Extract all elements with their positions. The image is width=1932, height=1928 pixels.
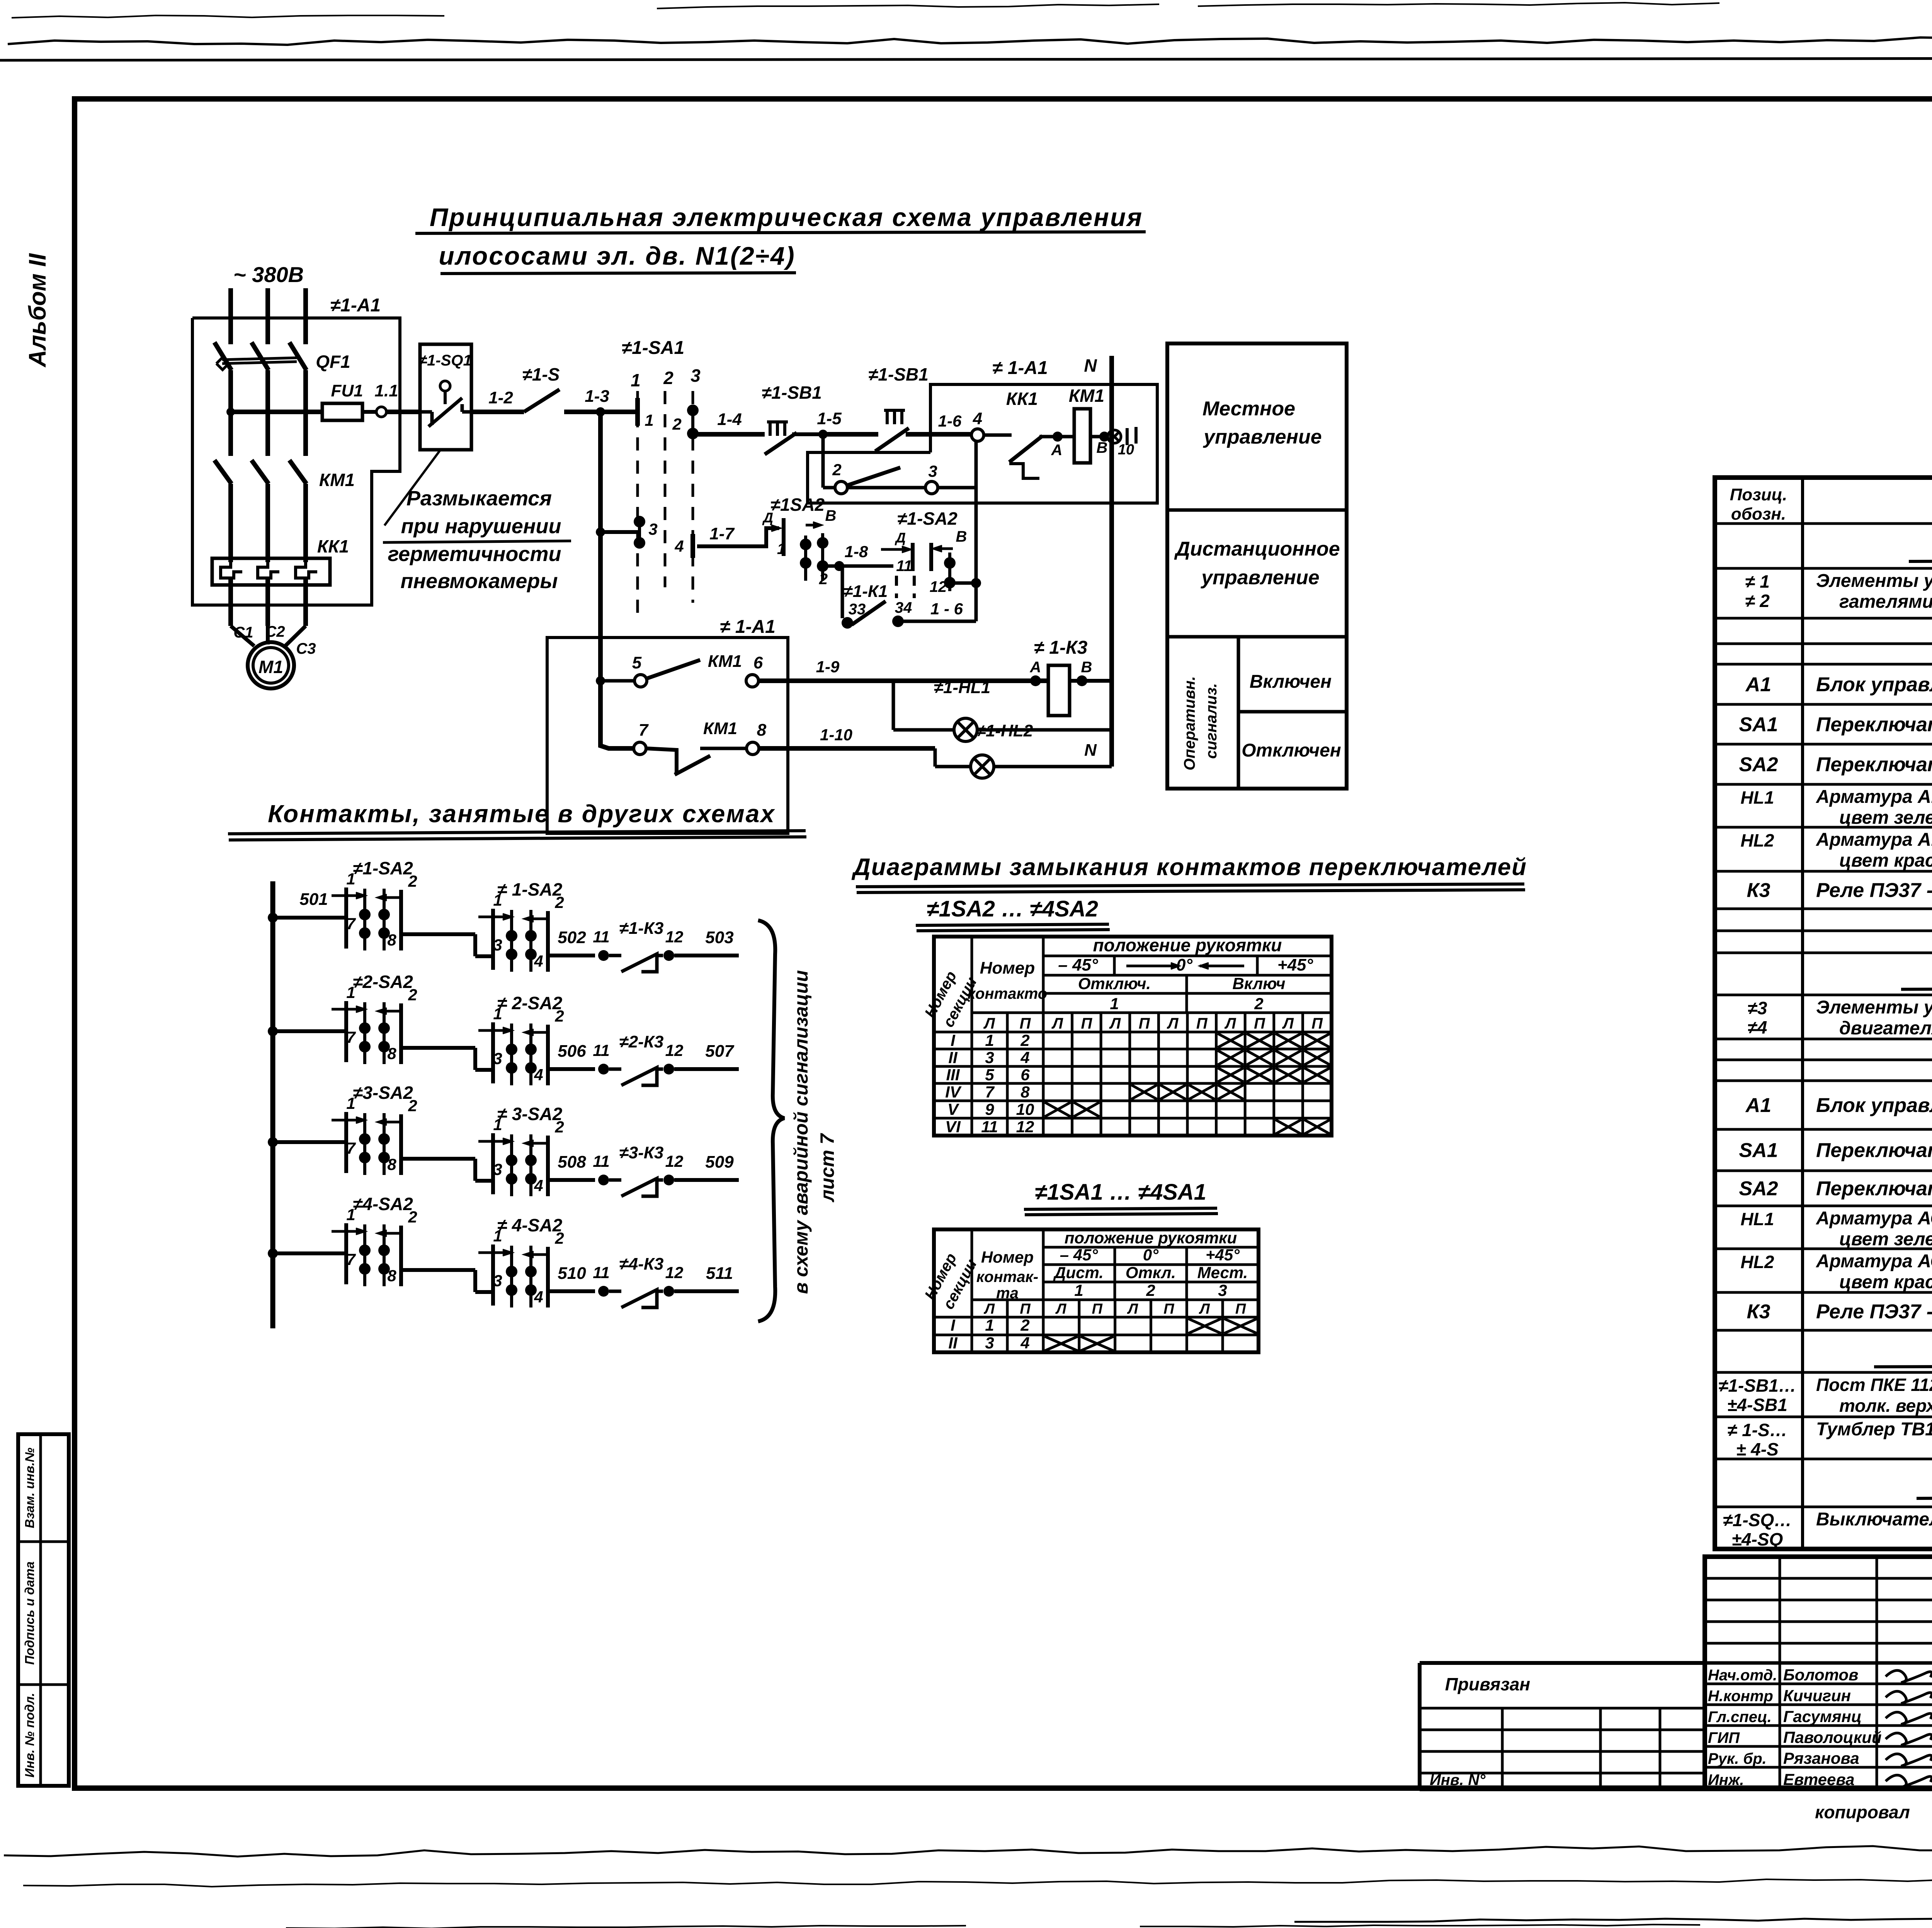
svg-text:HL2: HL2	[1741, 1252, 1774, 1272]
node 1-3	[596, 407, 605, 417]
torn paper edge bottom	[4, 1845, 1932, 1857]
svg-text:8: 8	[387, 931, 396, 949]
svg-text:1: 1	[985, 1316, 994, 1334]
svg-text:1: 1	[346, 983, 355, 1001]
NC blade 7-8	[675, 756, 710, 775]
bracket R2	[929, 543, 933, 571]
svg-text:2: 2	[554, 893, 564, 911]
svg-text:пневмокамеры: пневмокамеры	[401, 570, 558, 593]
svg-text:Отключен: Отключен	[1242, 740, 1341, 761]
node B	[1099, 432, 1109, 442]
svg-text:1: 1	[985, 1031, 994, 1049]
svg-text:Переключатель УП5313 - А19У3: Переключатель УП5313 - А19У3	[1816, 753, 1932, 776]
svg-text:Дистанционное: Дистанционное	[1174, 538, 1340, 560]
svg-text:HL1: HL1	[1741, 1209, 1774, 1229]
svg-text:11: 11	[593, 1263, 610, 1282]
node on bus	[596, 527, 605, 537]
svg-text:управление: управление	[1200, 566, 1319, 589]
svg-text:М1: М1	[259, 657, 283, 677]
svg-text:Включен: Включен	[1250, 672, 1332, 692]
svg-text:≠ 1-А1: ≠ 1-А1	[992, 358, 1048, 378]
svg-text:– 45°: – 45°	[1058, 955, 1098, 974]
title block	[1705, 1557, 1932, 1789]
svg-text:Дист.: Дист.	[1053, 1263, 1104, 1282]
svg-text:Инв. № подл.: Инв. № подл.	[22, 1693, 37, 1777]
pole with dots	[948, 553, 951, 591]
svg-text:6: 6	[1020, 1066, 1030, 1084]
svg-text:В: В	[1081, 659, 1092, 676]
svg-text:3: 3	[928, 462, 937, 480]
svg-text:1-6: 1-6	[938, 412, 962, 430]
svg-text:К3: К3	[1747, 1301, 1770, 1323]
svg-text:11: 11	[593, 1152, 610, 1170]
svg-text:в схему аварийной сигнализаци: в схему аварийной сигнализации	[790, 970, 812, 1294]
svg-text:Принципиальная электрическая: Принципиальная электрическая схема управ…	[430, 203, 1143, 231]
svg-text:Включ: Включ	[1233, 974, 1286, 993]
svg-text:4: 4	[534, 1288, 543, 1306]
svg-text:≠1-SВ1…: ≠1-SВ1…	[1718, 1375, 1796, 1396]
svg-text:4: 4	[534, 1066, 543, 1084]
KK1 hook	[1009, 464, 1039, 478]
svg-text:Л: Л	[1051, 1015, 1064, 1032]
blade	[847, 468, 900, 485]
svg-text:IV: IV	[945, 1083, 962, 1101]
svg-text:≠1-SQ…: ≠1-SQ…	[1723, 1510, 1792, 1530]
svg-text:±4-SВ1: ±4-SВ1	[1727, 1395, 1787, 1415]
svg-text:2: 2	[663, 368, 673, 388]
svg-text:≠1-S: ≠1-S	[522, 364, 560, 384]
svg-text:1: 1	[346, 1205, 355, 1224]
svg-text:Гл.спец.: Гл.спец.	[1708, 1709, 1772, 1726]
KK1 blade	[1009, 436, 1043, 462]
svg-text:3: 3	[493, 1272, 502, 1290]
svg-text:QF1: QF1	[316, 352, 350, 372]
svg-text:I: I	[951, 1031, 956, 1049]
svg-text:8: 8	[387, 1044, 396, 1063]
svg-text:1-5: 1-5	[817, 409, 842, 428]
svg-text:1: 1	[645, 411, 653, 429]
svg-text:Взам. инв.№: Взам. инв.№	[22, 1447, 37, 1528]
svg-text:1-10: 1-10	[820, 726, 852, 744]
svg-text:12: 12	[665, 928, 684, 946]
svg-text:4: 4	[1020, 1049, 1029, 1067]
stamp column box	[18, 1434, 69, 1786]
svg-text:Переключатель УП5311 - с23У: Переключатель УП5311 - с23У3	[1816, 714, 1932, 736]
svg-text:8: 8	[757, 721, 767, 740]
trip indicator	[216, 357, 229, 370]
svg-text:Тумблер ТВ1-1: Тумблер ТВ1-1	[1816, 1419, 1932, 1440]
svg-text:~ 380В: ~ 380В	[233, 262, 304, 287]
svg-text:≠1SА1 … ≠4SА1: ≠1SА1 … ≠4SА1	[1035, 1180, 1206, 1205]
svg-text:П: П	[1020, 1015, 1031, 1032]
SB1 start blade	[875, 428, 909, 451]
svg-text:Местное: Местное	[1202, 398, 1295, 420]
svg-text:11: 11	[896, 558, 912, 575]
vert join	[975, 488, 978, 621]
svg-text:II: II	[948, 1049, 958, 1067]
svg-text:Л: Л	[1224, 1015, 1236, 1032]
role rows	[1705, 1683, 1932, 1685]
svg-text:Л: Л	[1127, 1301, 1138, 1317]
arrow head	[771, 525, 781, 531]
svg-text:≠1-SВ1: ≠1-SВ1	[868, 364, 929, 384]
SA2 table crosses	[1218, 1034, 1244, 1047]
svg-text:КМ1: КМ1	[1069, 386, 1104, 406]
svg-text:А: А	[1051, 442, 1063, 459]
svg-text:В: В	[1097, 439, 1108, 456]
SA1 dashed line 1	[636, 391, 639, 615]
control box #1-A1 right	[808, 384, 1157, 503]
brace to alarm scheme	[758, 920, 784, 1321]
tap junction	[226, 408, 235, 416]
svg-text:Арматура А12013У2: Арматура А12013У2	[1816, 787, 1932, 807]
svg-text:1: 1	[1074, 1281, 1083, 1299]
branch down	[821, 434, 825, 488]
svg-text:1: 1	[346, 870, 355, 888]
svg-text:Привязан: Привязан	[1445, 1674, 1530, 1694]
svg-text:Инж.: Инж.	[1708, 1772, 1744, 1789]
title block annex left	[1420, 1661, 1705, 1665]
svg-text:≠ 1-К3: ≠ 1-К3	[1034, 638, 1088, 658]
svg-text:≠1-SВ1: ≠1-SВ1	[762, 383, 822, 403]
svg-text:К3: К3	[1747, 879, 1770, 902]
svg-text:12: 12	[665, 1263, 684, 1282]
svg-text:508: 508	[558, 1153, 586, 1171]
arrow between poles	[806, 524, 818, 527]
svg-text:HL1: HL1	[1741, 787, 1774, 808]
blade 5-6	[647, 660, 700, 678]
svg-text:В: В	[956, 528, 967, 545]
svg-text:1 - 6: 1 - 6	[930, 600, 963, 618]
svg-text:Блок управления Б5130 - 2474: Блок управления Б5130 - 2474 УХЛ4	[1816, 673, 1932, 696]
svg-text:Элементы управления электр: Элементы управления электро-	[1816, 997, 1932, 1018]
svg-text:1: 1	[631, 370, 641, 390]
svg-text:Рязанова: Рязанова	[1783, 1749, 1859, 1767]
svg-text:Паволоцкий: Паволоцкий	[1783, 1728, 1882, 1746]
svg-text:Подпись и дата: Подпись и дата	[22, 1561, 37, 1665]
svg-text:7: 7	[346, 915, 356, 933]
svg-text:сигнализ.: сигнализ.	[1203, 683, 1220, 759]
bracket L2	[911, 543, 915, 571]
contactor coil KM1	[1074, 409, 1090, 463]
svg-text:Л: Л	[1167, 1015, 1179, 1032]
svg-text:при нарушении: при нарушении	[401, 515, 561, 538]
svg-text:Позиц.: Позиц.	[1730, 485, 1787, 504]
motor M1	[248, 642, 294, 689]
limit switch #1-SQ1	[420, 344, 471, 450]
svg-text:толк. верхн. 1з.1р толк. нижн.: толк. верхн. 1з.1р толк. нижн. 1з.1р	[1839, 1396, 1932, 1416]
svg-text:цвет красный ∿ 220В: цвет красный ∿ 220В	[1839, 850, 1932, 871]
svg-text:1-4: 1-4	[717, 410, 742, 429]
circuit breaker QF1	[228, 342, 233, 344]
wire 1-7 stepped	[697, 528, 779, 546]
svg-text:Оперативн.: Оперативн.	[1181, 676, 1198, 770]
svg-text:1: 1	[346, 1094, 355, 1112]
svg-text:Нач.отд.: Нач.отд.	[1708, 1667, 1777, 1684]
svg-text:12: 12	[930, 578, 947, 595]
svg-text:1-3: 1-3	[585, 387, 609, 406]
svg-text:1: 1	[777, 541, 786, 558]
wire to fuse	[231, 410, 322, 414]
thermal relay KK1	[212, 558, 330, 585]
svg-text:2: 2	[408, 1208, 417, 1226]
mode box	[1167, 343, 1347, 789]
contacts row 4	[268, 1248, 278, 1258]
svg-text:Евтеева: Евтеева	[1783, 1770, 1855, 1789]
svg-text:управление: управление	[1202, 426, 1321, 448]
svg-text:Арматура АС12013 У2: Арматура АС12013 У2	[1816, 1208, 1932, 1229]
svg-text:Арматура А12011 У2: Арматура А12011 У2	[1816, 830, 1932, 850]
svg-text:1: 1	[1110, 995, 1119, 1013]
svg-text:12: 12	[1016, 1118, 1034, 1136]
svg-text:11: 11	[593, 1041, 610, 1059]
svg-text:2: 2	[408, 986, 417, 1004]
lamp HL2	[971, 755, 994, 778]
svg-text:≠ 3-SА2: ≠ 3-SА2	[497, 1104, 563, 1124]
svg-text:4: 4	[534, 952, 543, 970]
svg-text:2: 2	[832, 461, 841, 479]
title block columns	[1779, 1557, 1781, 1789]
SA1 closing diagram table	[934, 1229, 1259, 1352]
svg-text:506: 506	[558, 1042, 586, 1061]
switch #1-S	[471, 410, 524, 414]
svg-text:П: П	[1311, 1015, 1323, 1032]
SA1 dashed line 3	[692, 391, 694, 603]
svg-text:2: 2	[1146, 1281, 1155, 1299]
terminal 10	[1108, 430, 1121, 443]
svg-text:Болотов: Болотов	[1783, 1666, 1858, 1684]
svg-text:11: 11	[593, 928, 610, 946]
svg-text:П: П	[1081, 1015, 1093, 1032]
svg-text:2: 2	[408, 1097, 417, 1115]
svg-text:С1: С1	[233, 624, 253, 641]
bus down from node 1-3	[600, 412, 634, 748]
svg-text:≠1-HL2: ≠1-HL2	[976, 721, 1033, 740]
svg-text:Блок управления Б 5130 - 247: Блок управления Б 5130 - 2474 УХЛ4	[1816, 1094, 1932, 1117]
svg-text:≠ 1-S…: ≠ 1-S…	[1727, 1420, 1787, 1440]
svg-text:Размыкается: Размыкается	[406, 487, 552, 510]
svg-text:С3: С3	[296, 640, 316, 657]
svg-text:П: П	[1139, 1015, 1150, 1032]
svg-text:5: 5	[632, 653, 642, 672]
svg-text:+45°: +45°	[1277, 955, 1313, 974]
phase line L1	[228, 288, 233, 344]
svg-text:VI: VI	[945, 1118, 961, 1136]
svg-text:I: I	[951, 1316, 956, 1334]
wire to 1-6	[898, 620, 976, 623]
svg-text:≠ 2: ≠ 2	[1745, 591, 1770, 611]
svg-text:4: 4	[1020, 1334, 1029, 1352]
svg-text:501: 501	[299, 890, 328, 909]
svg-text:3: 3	[493, 1160, 502, 1178]
SQ1 blade	[429, 398, 462, 427]
svg-text:≠1-SА2: ≠1-SА2	[353, 858, 413, 878]
term bar2	[1134, 427, 1138, 444]
svg-text:П: П	[1254, 1015, 1265, 1032]
svg-text:7: 7	[346, 1028, 356, 1046]
svg-text:Пост ПКЕ 112 - 2У3: Пост ПКЕ 112 - 2У3	[1816, 1375, 1932, 1395]
node B2	[1077, 675, 1087, 686]
svg-text:ГИП: ГИП	[1708, 1729, 1740, 1746]
svg-text:5: 5	[985, 1066, 994, 1084]
svg-text:КМ1: КМ1	[703, 719, 737, 738]
svg-text:лист 7: лист 7	[816, 1133, 838, 1202]
svg-text:SА2: SА2	[1739, 1178, 1778, 1200]
svg-text:А1: А1	[1745, 1094, 1771, 1117]
svg-text:1.1: 1.1	[374, 381, 398, 400]
svg-text:SА2: SА2	[1739, 753, 1778, 776]
NC step	[646, 748, 677, 773]
svg-text:1: 1	[493, 1115, 502, 1134]
svg-text:≠1-SQ1: ≠1-SQ1	[418, 352, 472, 369]
S blade	[524, 389, 560, 412]
svg-text:502: 502	[558, 928, 586, 947]
svg-text:герметичности: герметичности	[388, 542, 561, 566]
upper small rows	[1705, 1577, 1932, 1580]
svg-text:Арматура АС12011 у2: Арматура АС12011 у2	[1816, 1251, 1932, 1272]
svg-text:4: 4	[674, 537, 684, 555]
svg-text:3: 3	[648, 520, 657, 538]
svg-text:КК1: КК1	[317, 536, 349, 556]
phase line L3	[303, 288, 308, 344]
svg-text:2: 2	[672, 415, 681, 433]
svg-text:+45°: +45°	[1206, 1246, 1240, 1264]
svg-text:SА1: SА1	[1739, 714, 1778, 736]
svg-text:цвет красный ∿ 220В: цвет красный ∿ 220В	[1839, 1272, 1932, 1292]
svg-text:С2: С2	[265, 623, 285, 640]
SQ1 note leader	[384, 450, 440, 525]
svg-text:та: та	[996, 1285, 1019, 1302]
svg-text:≠3-SА2: ≠3-SА2	[353, 1083, 413, 1103]
svg-text:Откл.: Откл.	[1126, 1263, 1176, 1282]
svg-text:копировал: копировал	[1815, 1802, 1910, 1822]
svg-text:SА1: SА1	[1739, 1139, 1778, 1162]
svg-text:3: 3	[493, 1049, 502, 1068]
svg-text:8: 8	[387, 1155, 396, 1173]
svg-text:положение рукоятки: положение рукоятки	[1065, 1229, 1237, 1247]
wire 1-10	[759, 746, 935, 751]
svg-text:11: 11	[981, 1118, 998, 1136]
svg-text:Мест.: Мест.	[1197, 1263, 1248, 1282]
svg-text:≠3-К3: ≠3-К3	[619, 1143, 664, 1162]
svg-text:3: 3	[493, 936, 502, 954]
torn paper edge top	[8, 37, 1932, 45]
svg-text:≠4-К3: ≠4-К3	[619, 1255, 664, 1273]
svg-text:3: 3	[985, 1334, 994, 1352]
svg-text:Гасумянц: Гасумянц	[1783, 1707, 1862, 1726]
svg-text:Элементы управления электро: Элементы управления электродви-	[1816, 571, 1932, 591]
svg-text:≠1-SА2: ≠1-SА2	[897, 508, 957, 529]
svg-text:7: 7	[346, 1250, 356, 1268]
svg-text:≠1SА2 … ≠4SА2: ≠1SА2 … ≠4SА2	[927, 896, 1098, 921]
svg-text:≠4: ≠4	[1748, 1017, 1767, 1037]
svg-text:≠2-SА2: ≠2-SА2	[353, 972, 413, 992]
phase line L2	[265, 288, 270, 344]
svg-text:±4-SQ: ±4-SQ	[1732, 1529, 1783, 1549]
svg-text:2: 2	[554, 1229, 564, 1247]
svg-text:2: 2	[819, 571, 828, 588]
svg-text:≠1-А1: ≠1-А1	[330, 295, 381, 316]
svg-text:± 4-S: ± 4-S	[1736, 1439, 1779, 1459]
terminal 1.1	[376, 407, 386, 417]
svg-text:контакто: контакто	[968, 985, 1047, 1002]
svg-text:3: 3	[985, 1049, 994, 1067]
svg-text:Переключатель УП5313 - А19у3: Переключатель УП5313 - А19у3	[1816, 1178, 1932, 1200]
svg-text:1: 1	[493, 1227, 502, 1245]
svg-text:Л: Л	[1282, 1015, 1294, 1032]
bracket L	[782, 518, 786, 556]
svg-text:Л: Л	[1055, 1301, 1066, 1317]
svg-text:12: 12	[665, 1041, 684, 1059]
svg-text:N: N	[1084, 741, 1097, 760]
bus node	[596, 676, 605, 685]
SA2 closing diagram table	[934, 937, 1332, 1136]
svg-text:обозн.: обозн.	[1731, 505, 1786, 524]
svg-text:≠ 4-SА2: ≠ 4-SА2	[497, 1215, 563, 1235]
svg-text:511: 511	[706, 1264, 733, 1283]
svg-text:Л: Л	[1199, 1301, 1210, 1317]
svg-text:Реле ПЭ37 - 22У2: Реле ПЭ37 - 22У2	[1816, 879, 1932, 902]
svg-text:П: П	[1020, 1301, 1031, 1317]
svg-text:≠4-SА2: ≠4-SА2	[353, 1194, 413, 1214]
svg-text:Л: Л	[983, 1301, 995, 1317]
svg-text:≠ 1-А1: ≠ 1-А1	[720, 617, 776, 637]
svg-text:гателями М1 … М2: гателями М1 … М2	[1839, 592, 1932, 612]
svg-text:1: 1	[493, 891, 502, 909]
svg-text:Диаграммы замыкания кон: Диаграммы замыкания контактов переключат…	[851, 854, 1527, 881]
svg-text:≠1-К3: ≠1-К3	[619, 919, 664, 938]
junction 1-8	[834, 561, 844, 571]
svg-text:А1: А1	[1745, 673, 1771, 696]
svg-text:507: 507	[705, 1042, 735, 1061]
signatures	[1886, 1670, 1932, 1683]
svg-text:V: V	[947, 1100, 959, 1119]
wire to SQ1	[386, 410, 420, 414]
svg-text:7: 7	[639, 721, 649, 740]
svg-text:≠1-К1: ≠1-К1	[844, 582, 888, 601]
svg-text:П: П	[1235, 1301, 1246, 1317]
svg-text:509: 509	[705, 1153, 734, 1171]
svg-text:Д: Д	[895, 530, 906, 546]
svg-text:2: 2	[554, 1007, 564, 1025]
stamp inner divider	[39, 1434, 42, 1786]
node 1-5	[818, 430, 828, 439]
contacts row 2	[268, 1026, 278, 1036]
svg-text:Контакты, занятые в други: Контакты, занятые в других схемах	[268, 800, 776, 828]
stamp divider 1	[18, 1540, 69, 1543]
svg-text:Рук. бр.: Рук. бр.	[1708, 1750, 1767, 1767]
SA1 contact 4	[690, 534, 695, 558]
svg-text:Реле ПЭ37 - 22у2: Реле ПЭ37 - 22у2	[1816, 1301, 1932, 1323]
svg-text:≠1-SА1: ≠1-SА1	[622, 338, 684, 358]
SB1 blade	[765, 433, 797, 454]
svg-text:Выключатель конечный: Выключатель конечный	[1816, 1509, 1932, 1530]
svg-text:двигателями М3 … М4: двигателями М3 … М4	[1839, 1018, 1932, 1039]
svg-text:≠1SА2: ≠1SА2	[770, 495, 825, 515]
svg-text:– 45°: – 45°	[1060, 1246, 1099, 1264]
svg-text:2: 2	[1254, 995, 1263, 1013]
svg-text:П: П	[1092, 1301, 1103, 1317]
svg-text:Л: Л	[983, 1015, 995, 1032]
svg-text:Л: Л	[1109, 1015, 1121, 1032]
svg-text:≠ 2-SА2: ≠ 2-SА2	[497, 993, 563, 1013]
svg-text:П: П	[1196, 1015, 1208, 1032]
node A2	[1030, 675, 1041, 686]
term bar1	[1126, 428, 1129, 445]
pole 2	[821, 533, 824, 581]
svg-text:1-2: 1-2	[488, 388, 513, 407]
svg-text:А: А	[1030, 659, 1041, 676]
